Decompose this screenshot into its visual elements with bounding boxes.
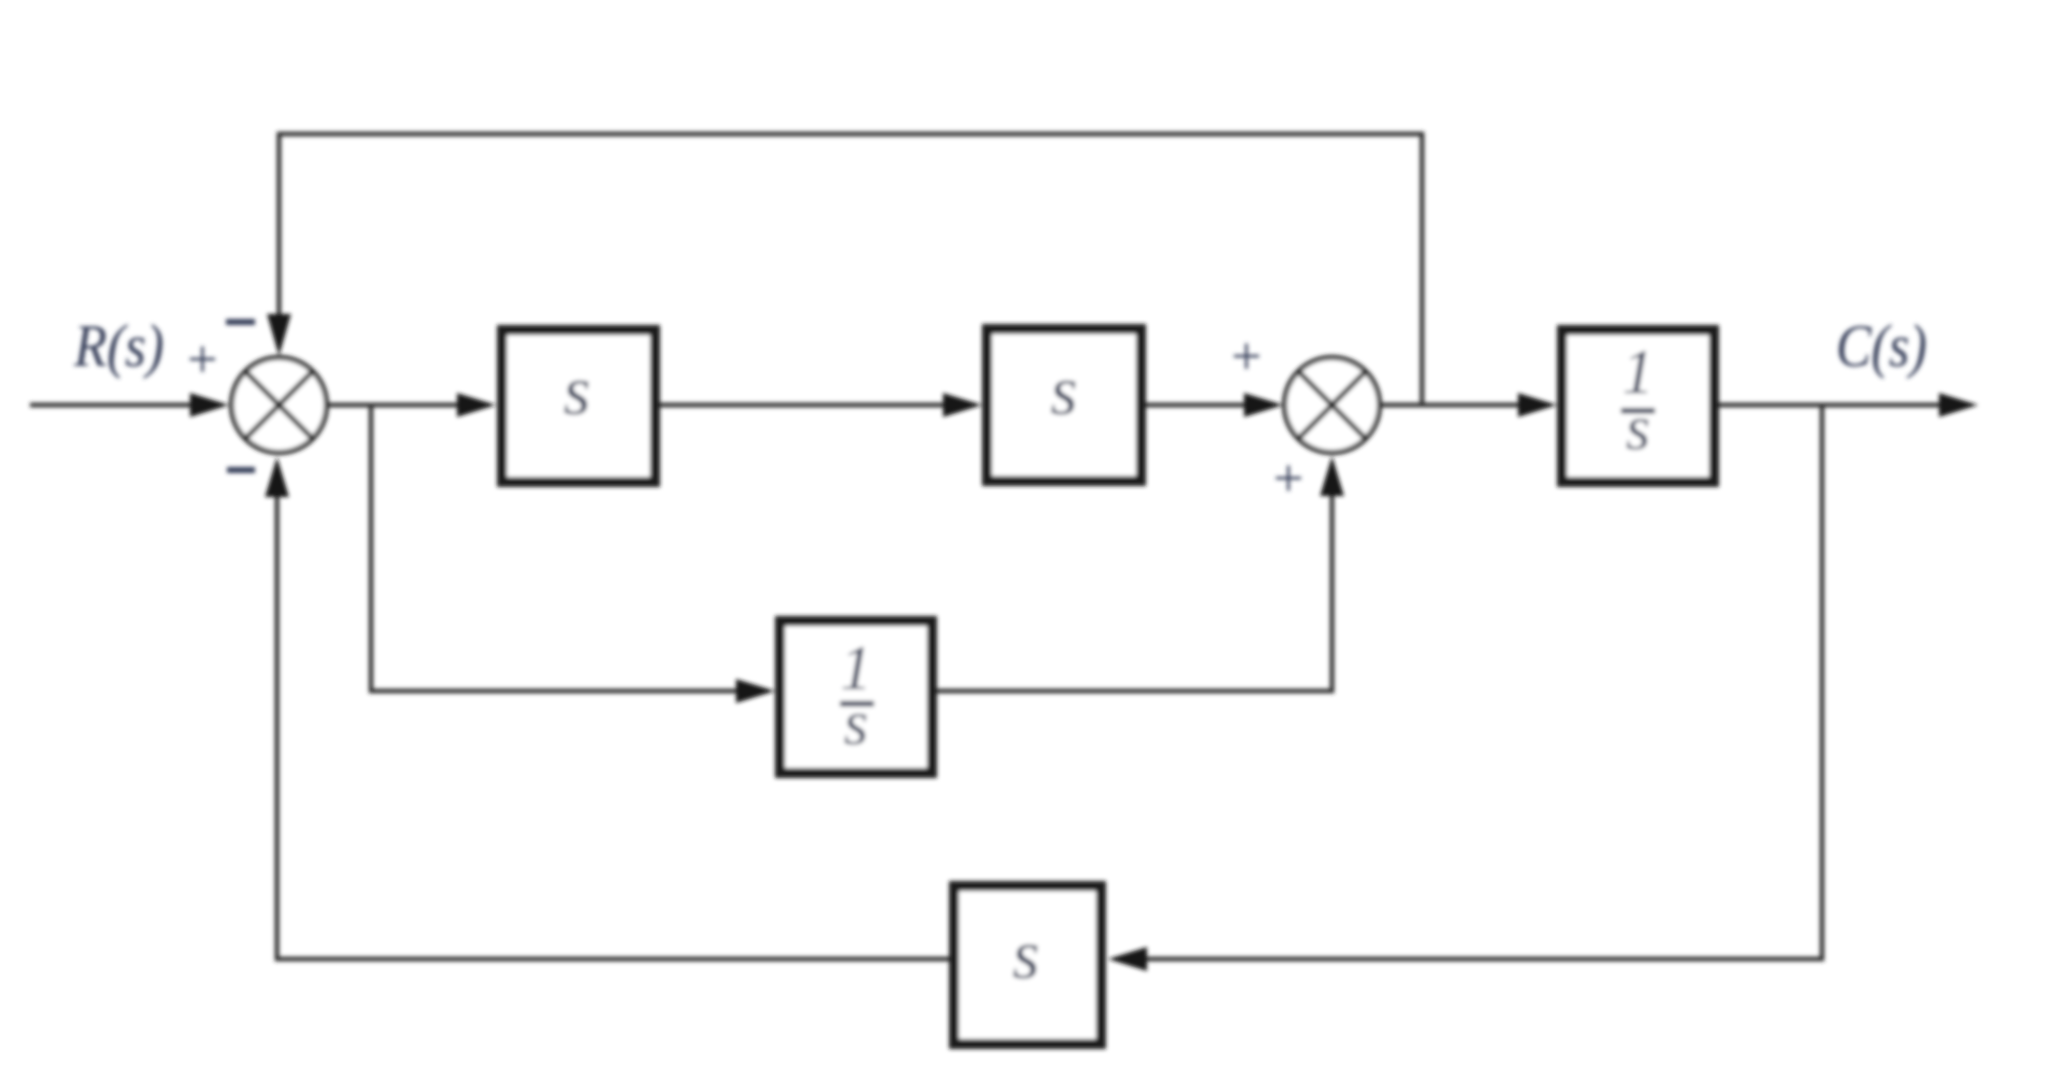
minus sign at S1 top input xyxy=(226,319,255,325)
wire: S1 output to block G1 xyxy=(327,403,470,408)
svg-text:s: s xyxy=(1012,917,1039,994)
wire: input R(s) line xyxy=(30,403,200,408)
wire: H1 output left and up into S1 bottom xyxy=(277,480,949,959)
svg-text:+: + xyxy=(1270,448,1306,508)
svg-text:+: + xyxy=(1228,326,1264,386)
arrowhead into summing junction S1 xyxy=(190,393,229,417)
svg-text:s: s xyxy=(1050,353,1077,430)
minus sign at S1 bottom input xyxy=(227,467,255,473)
block H1 (s) bottom xyxy=(954,886,1101,1044)
summing junction S2 xyxy=(1285,358,1380,453)
arrowhead into summing junction S2 xyxy=(1244,393,1283,417)
wire: G2 to summing junction S2 xyxy=(1146,403,1258,408)
arrowhead up into S2 bottom xyxy=(1320,456,1344,496)
wire: G3 output right and up into S2 bottom xyxy=(937,478,1332,691)
wire: branch down from node A to middle row xyxy=(371,405,748,691)
block G1 (s) xyxy=(502,330,655,482)
arrowhead at C(s) output xyxy=(1939,393,1978,417)
block G2 (s) xyxy=(987,329,1141,481)
wire: output branch down to bottom feedback row xyxy=(1135,405,1822,959)
arrowhead into block G2 xyxy=(943,393,982,417)
block G4 (1/s) xyxy=(1562,330,1714,482)
svg-text:s: s xyxy=(844,688,869,758)
arrowhead up into S1 bottom xyxy=(265,457,289,497)
arrowhead into block H1 (bottom s) pointing left xyxy=(1108,947,1147,971)
wire: S2 output to block G4 (1/s) xyxy=(1380,403,1530,408)
block G3 (1/s) middle xyxy=(780,621,932,773)
svg-text:+: + xyxy=(184,329,220,389)
wire: outer negative feedback takeoff up and across the top to S1 xyxy=(279,134,1422,405)
svg-text:C(s): C(s) xyxy=(1836,313,1927,379)
svg-text:s: s xyxy=(1626,393,1651,463)
svg-text:R(s): R(s) xyxy=(73,313,164,379)
arrowhead into block G1 xyxy=(457,393,496,417)
arrowhead into block G3 (1/s middle) xyxy=(736,679,775,703)
summing junction S1 xyxy=(232,358,327,453)
arrowhead into block G4 xyxy=(1518,393,1557,417)
wire: G4 output to C(s) xyxy=(1719,403,1950,408)
arrowhead down into S1 top xyxy=(267,314,291,356)
svg-text:s: s xyxy=(563,353,590,430)
wire: G1 to G2 xyxy=(660,403,955,408)
